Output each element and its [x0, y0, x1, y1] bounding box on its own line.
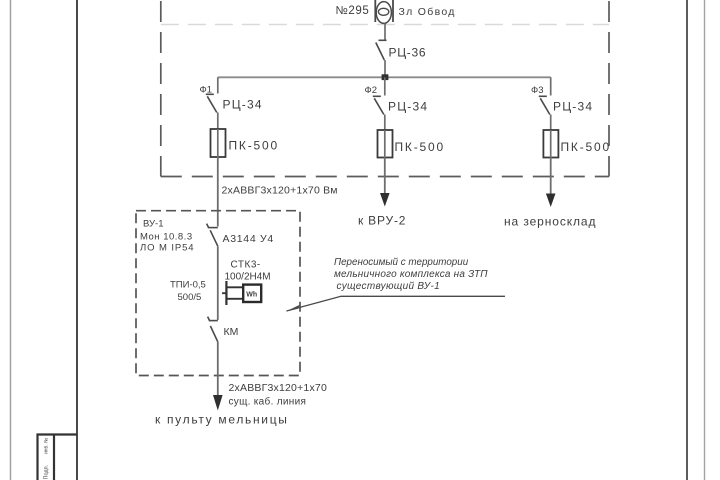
svg-text:существующий ВУ-1: существующий ВУ-1 — [337, 281, 441, 292]
svg-text:РЦ-34: РЦ-34 — [388, 100, 428, 114]
bus — [218, 76, 551, 78]
svg-text:на зерносклад: на зерносклад — [504, 215, 596, 229]
svg-text:Переносимый с территории: Переносимый с территории — [334, 257, 469, 268]
arrow to ВРУ-2 — [380, 193, 390, 207]
disconnect switch РЦ-36 — [376, 40, 387, 60]
svg-text:РЦ-34: РЦ-34 — [223, 98, 263, 112]
svg-text:Ф2: Ф2 — [365, 85, 378, 96]
wire: switch РЦ-36 to bus — [384, 60, 386, 77]
wire: bus corner down (Ф3) — [550, 77, 552, 95]
svg-text:к пульту мельницы: к пульту мельницы — [155, 413, 289, 427]
svg-text:КМ: КМ — [224, 326, 239, 338]
disconnect switch РЦ-34 (Ф2) — [373, 96, 384, 114]
svg-text:РЦ-36: РЦ-36 — [389, 46, 427, 60]
wire: contactor to outgoing arrow — [217, 342, 219, 395]
svg-text:СТК3-: СТК3- — [231, 260, 261, 271]
svg-text:500/5: 500/5 — [178, 292, 202, 303]
transformer T1 line input — [375, 0, 393, 23]
svg-text:мельничного комплекса на ЗТП: мельничного комплекса на ЗТП — [334, 269, 488, 280]
junction: РЦ-36 drop on bus — [382, 74, 389, 80]
wire: fuse Ф1 down into ВУ-1 — [217, 157, 219, 227]
svg-text:ПК-500: ПК-500 — [229, 139, 279, 153]
arrow to пульт мельницы — [213, 395, 223, 411]
svg-text:Подп.: Подп. — [44, 464, 50, 479]
svg-text:ВУ-1: ВУ-1 — [143, 219, 164, 230]
svg-text:к ВРУ-2: к ВРУ-2 — [358, 214, 406, 228]
wire: switch to fuse (Ф1) — [217, 113, 219, 130]
svg-text:РЦ-34: РЦ-34 — [553, 100, 593, 114]
wire: breaker to contactor — [217, 246, 219, 320]
wire: switch to fuse (Ф3) — [550, 115, 552, 131]
contactor КМ — [208, 317, 218, 342]
svg-text:ЛО М IP54: ЛО М IP54 — [140, 243, 194, 254]
svg-text:100/2Н4М: 100/2Н4М — [225, 272, 271, 283]
wire: fuse Ф3 to arrow — [550, 158, 552, 194]
fuse ПК-500 (Ф1) — [211, 129, 226, 157]
svg-text:ПК-500: ПК-500 — [395, 140, 445, 154]
wire: T1 to switch РЦ-36 — [384, 24, 386, 40]
wire: fuse Ф2 to arrow — [384, 158, 386, 194]
disconnect switch РЦ-34 (Ф1) — [206, 94, 217, 112]
svg-text:ПК-500: ПК-500 — [561, 140, 611, 154]
fuse ПК-500 (Ф3) — [543, 130, 558, 158]
disconnect switch РЦ-34 (Ф3) — [539, 96, 550, 114]
svg-text:Ф3: Ф3 — [531, 85, 544, 96]
wire: bus tap down (Ф2) — [384, 77, 386, 95]
wire: switch to fuse (Ф2) — [384, 115, 386, 131]
svg-text:№295: №295 — [336, 5, 370, 17]
note leader line — [286, 296, 505, 311]
svg-text:инв. №: инв. № — [44, 438, 50, 454]
circuit breaker А3144 У4 — [207, 224, 218, 247]
svg-text:А3144 У4: А3144 У4 — [223, 233, 274, 245]
svg-text:2хАВВГ3х120+1х70: 2хАВВГ3х120+1х70 — [229, 382, 328, 394]
svg-text:Wh: Wh — [246, 292, 257, 299]
svg-text:Зл Обвод: Зл Обвод — [399, 6, 456, 18]
svg-text:2хАВВГ3х120+1х70 Вм: 2хАВВГ3х120+1х70 Вм — [222, 185, 338, 197]
meter Wh (СТК3) — [243, 285, 261, 302]
current transformer ТПИ-0,5 500/5 — [222, 281, 243, 305]
svg-text:Мон 10.8.3: Мон 10.8.3 — [140, 232, 193, 243]
arrow to зерносклад — [546, 194, 556, 208]
fuse ПК-500 (Ф2) — [378, 130, 393, 158]
svg-text:ТПИ-0,5: ТПИ-0,5 — [170, 280, 206, 291]
enclosure ЗТП dashed boundary — [161, 1, 609, 177]
wire: bus corner down (Ф1) — [217, 77, 219, 93]
svg-text:сущ. каб. линия: сущ. каб. линия — [229, 396, 307, 408]
enclosure ВУ-1 dashed boundary — [136, 211, 300, 376]
